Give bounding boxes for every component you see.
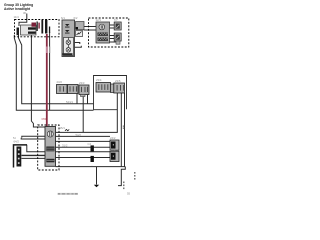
- svg-text:6/2: 6/2: [74, 16, 78, 20]
- svg-text:54/21: 54/21: [66, 100, 73, 104]
- svg-text:11/4: 11/4: [14, 15, 20, 19]
- svg-text:32/1: 32/1: [96, 18, 102, 22]
- svg-text:15/1: 15/1: [60, 126, 66, 130]
- svg-text:23/2: 23/2: [57, 80, 63, 84]
- svg-text:23/5: 23/5: [115, 79, 121, 83]
- svg-text:55: 55: [127, 192, 131, 196]
- svg-text:24/3: 24/3: [110, 147, 116, 151]
- svg-text:..: ..: [91, 162, 93, 166]
- svg-text:23/3: 23/3: [79, 81, 85, 85]
- svg-text:54/2: 54/2: [76, 133, 82, 137]
- svg-text:Active headlight: Active headlight: [4, 7, 31, 11]
- svg-text:7/7: 7/7: [114, 18, 118, 22]
- svg-text:C4: C4: [88, 142, 92, 146]
- svg-text:6/50: 6/50: [42, 118, 47, 121]
- svg-text:23/4: 23/4: [96, 78, 102, 82]
- svg-text:6/1: 6/1: [61, 16, 65, 20]
- svg-text:31/2: 31/2: [62, 144, 68, 148]
- svg-text:24/2: 24/2: [110, 136, 116, 140]
- svg-text:30: 30: [23, 11, 27, 15]
